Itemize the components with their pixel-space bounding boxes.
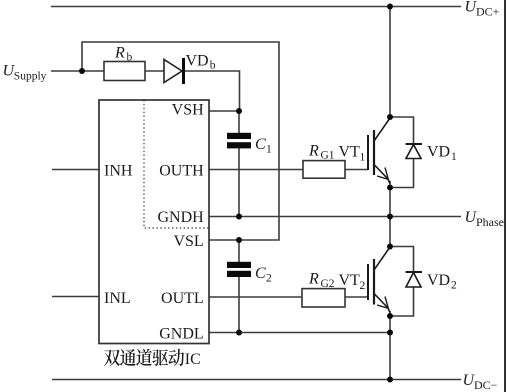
node VT1 emitter <box>387 185 393 191</box>
wire RG2 to VT2 gate <box>345 296 368 298</box>
svg-text:VT: VT <box>339 272 361 289</box>
svg-text:VD: VD <box>427 272 450 289</box>
node GNDL/C2 <box>236 330 242 336</box>
wire VSH stub <box>209 110 239 112</box>
node DC- rail <box>387 377 393 383</box>
svg-text:C: C <box>255 136 266 153</box>
node VT1 collector <box>387 114 393 120</box>
svg-text:Phase: Phase <box>476 215 504 229</box>
svg-text:VD: VD <box>427 144 450 161</box>
svg-text:IC: IC <box>185 351 201 368</box>
svg-text:2: 2 <box>266 273 272 285</box>
svg-text:GNDL: GNDL <box>159 326 203 343</box>
resistor RG2 <box>302 289 345 307</box>
diode VD2 <box>406 272 423 287</box>
node GNDH/C1 <box>236 214 242 220</box>
svg-text:b: b <box>210 59 216 71</box>
wire UDC- rail <box>52 379 461 381</box>
svg-text:DC−: DC− <box>474 378 498 392</box>
capacitor C2 <box>227 262 251 268</box>
svg-text:R: R <box>308 142 319 159</box>
svg-text:OUTH: OUTH <box>159 162 204 179</box>
svg-text:GNDH: GNDH <box>157 209 204 226</box>
capacitor C1 <box>227 133 251 139</box>
node DC+ rail <box>387 4 393 10</box>
svg-text:R: R <box>114 45 125 62</box>
wire VDb to VSH corner <box>184 71 240 111</box>
wire VSH to C1 <box>238 111 240 133</box>
IC internal dotted divider <box>144 100 209 228</box>
wire C2 to GNDL <box>238 277 240 333</box>
svg-text:VT: VT <box>339 144 361 161</box>
svg-text:OUTL: OUTL <box>161 290 204 307</box>
svg-text:2: 2 <box>451 280 457 292</box>
transistor VT2 (IGBT) <box>368 247 390 313</box>
wire over-the-top supply to VSL <box>82 42 279 240</box>
svg-text:DC+: DC+ <box>476 5 500 19</box>
wire VT1 emitter to phase <box>389 181 391 247</box>
node VT2 emitter <box>387 313 393 319</box>
node VT2 collector <box>387 244 393 250</box>
wire VD2 branch <box>390 247 414 273</box>
diode VD1 <box>406 144 423 159</box>
wire OUTL to RG2 <box>209 296 302 298</box>
wire Rb to VDb <box>145 70 164 72</box>
svg-text:C: C <box>255 265 266 282</box>
svg-text:1: 1 <box>266 143 272 155</box>
transistor VT1 (IGBT) <box>368 118 390 184</box>
wire C1 to GNDH <box>238 149 240 217</box>
wire RG1 to VT1 gate <box>345 169 368 171</box>
IC box (dual channel driver) <box>99 100 209 344</box>
wire VD1 branch <box>390 117 414 144</box>
node VSL <box>236 237 242 243</box>
svg-text:b: b <box>127 51 133 63</box>
diode VDb <box>164 60 182 83</box>
wire OUTH to RG1 <box>209 169 303 171</box>
right page border <box>504 0 506 392</box>
svg-text:2: 2 <box>360 280 366 292</box>
svg-text:INH: INH <box>104 162 133 179</box>
node phase <box>387 214 393 220</box>
node GNDL junction <box>387 330 393 336</box>
wire UPhase / GNDH line <box>209 216 461 218</box>
node USupply junction <box>79 68 85 74</box>
svg-text:G1: G1 <box>321 150 335 162</box>
wire VT2 emitter to DC- <box>389 311 391 380</box>
svg-text:VSL: VSL <box>173 233 203 250</box>
wire INH input <box>52 169 99 171</box>
wire VSL stub <box>209 239 239 241</box>
node VSH <box>236 108 242 114</box>
wire VSL to C2 <box>238 240 240 262</box>
svg-text:G2: G2 <box>321 278 335 290</box>
wire UDC+ rail <box>51 6 461 8</box>
wire USupply input <box>51 70 104 72</box>
svg-text:Supply: Supply <box>14 71 47 83</box>
wire INL input <box>52 296 99 298</box>
resistor Rb <box>104 62 145 81</box>
wire GNDL line <box>209 332 390 334</box>
svg-text:INL: INL <box>104 290 131 307</box>
svg-text:1: 1 <box>360 151 366 163</box>
svg-text:R: R <box>308 271 319 288</box>
svg-text:VSH: VSH <box>172 102 204 119</box>
svg-text:1: 1 <box>451 151 457 163</box>
resistor RG1 <box>303 161 345 179</box>
label 双通道驱动IC (Chinese glyph outlines) <box>104 349 201 368</box>
svg-text:VD: VD <box>186 52 209 69</box>
wire DC+ to VT1 collector <box>389 7 391 118</box>
